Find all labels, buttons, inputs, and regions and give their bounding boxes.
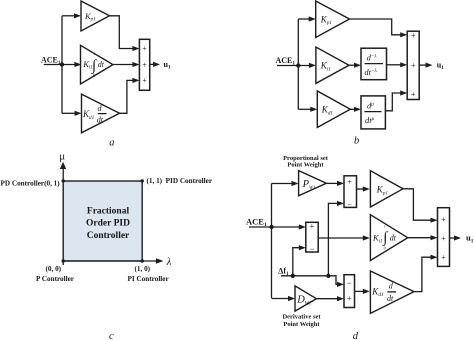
node (1,1) corner dot (fig c) — [141, 179, 144, 182]
svg-text:P Controller: P Controller — [36, 275, 75, 283]
node u1 output label (fig d) — [466, 233, 474, 245]
wire Kd1 to final summer (fig d) — [414, 255, 438, 292]
node ACE1 input label (fig a) — [41, 55, 61, 66]
svg-text:b: b — [354, 135, 359, 146]
wire branch vertical (fig d) — [271, 184, 273, 299]
wire Kp1 to final summer (fig d) — [403, 189, 438, 223]
svg-text:0: 0 — [93, 73, 95, 78]
subfigure label a — [109, 138, 114, 149]
junction node on ACE1 wire (fig a) — [60, 62, 64, 66]
wire to Kp1 (fig b) — [298, 16, 315, 21]
axis label lambda (fig c) — [166, 257, 172, 268]
wire Delta f to summer2 minus (fig d) — [293, 245, 306, 276]
svg-text:(1, 1) PID Controller: (1, 1) PID Controller — [147, 177, 213, 185]
node ACE1 input label (fig b) — [276, 56, 296, 67]
svg-text:dt: dt — [387, 294, 394, 303]
wire branch vertical (fig a) — [61, 16, 63, 114]
summer2 (fig d) — [306, 222, 318, 254]
svg-text:(0, 0): (0, 0) — [46, 265, 62, 273]
svg-text:Controller: Controller — [87, 231, 130, 241]
svg-text:u1: u1 — [466, 233, 474, 245]
wire Kp1 to summer (fig b) — [350, 19, 408, 37]
svg-text:+: + — [411, 61, 416, 70]
wire summer2 output to Ki1 (fig d) — [318, 235, 370, 240]
wire Kd1 to summer (fig a) — [120, 78, 140, 114]
label (1,1) PID Controller (fig c) — [147, 177, 213, 185]
gain Kd1 (fig b) — [317, 91, 350, 128]
svg-text:Fractional: Fractional — [87, 206, 130, 216]
summer1 (fig d) — [344, 176, 357, 209]
node (0,0) corner dot (fig c) — [62, 259, 65, 262]
axis label mu (fig c) — [59, 151, 65, 163]
wire Delta f1 (fig d) — [281, 275, 328, 277]
node Delta f1 label (fig d) — [278, 266, 289, 277]
label PD Controller (0,1) (fig c) — [1, 180, 61, 188]
svg-text:dt: dt — [98, 60, 105, 69]
subfigure label d — [353, 331, 359, 340]
wire branch vertical (fig b) — [297, 19, 299, 109]
junction node Delta f second (fig d) — [326, 274, 330, 278]
gain Kp1 (fig b) — [316, 1, 350, 38]
svg-text:+: + — [142, 44, 147, 53]
svg-text:u1: u1 — [164, 60, 171, 71]
subfigure label c — [109, 331, 114, 340]
junction node on ACE1 wire (fig b) — [296, 63, 300, 67]
wire to Kp1 (fig a) — [62, 13, 81, 18]
label Proportional set Point Weight (fig d) — [283, 155, 329, 169]
svg-text:c: c — [109, 331, 114, 340]
svg-text:+: + — [411, 31, 416, 40]
wire Ki1 to fractional integrator (fig b) — [349, 63, 361, 68]
svg-text:a: a — [109, 138, 114, 149]
wire Ki1 to summer (fig a) — [113, 62, 139, 67]
wire ACE1 to summer2 (fig d) — [249, 224, 306, 229]
svg-text:+: + — [441, 253, 446, 262]
svg-text:dt: dt — [390, 234, 397, 243]
wire to DW1 (fig d) — [272, 296, 296, 301]
svg-text:−: − — [347, 278, 352, 288]
proportional set point weight gain PW1 (fig d) — [299, 171, 327, 196]
node u1 output label (fig a) — [164, 60, 171, 71]
summer3 (fig d) — [344, 275, 355, 308]
svg-text:PD Controller(0, 1): PD Controller(0, 1) — [1, 180, 61, 188]
svg-text:−: − — [347, 200, 352, 209]
wire to PW1 (fig d) — [272, 181, 299, 186]
wire PW1 to summer1 (fig d) — [326, 181, 344, 186]
wire differentiator block to summer (fig b) — [385, 90, 407, 110]
wire final summer output (fig d) — [450, 235, 462, 240]
FOPID region square (fig c) — [63, 181, 142, 261]
junction node Delta f first (fig d) — [291, 274, 295, 278]
label P Controller (fig c) — [36, 275, 75, 283]
x-axis with right arrow (fig c) — [63, 258, 163, 264]
svg-text:Derivative set: Derivative set — [282, 314, 321, 321]
svg-text:u1: u1 — [437, 61, 444, 72]
wire Delta f to summer3 minus (fig d) — [328, 276, 344, 287]
svg-text:Point Weight: Point Weight — [283, 321, 320, 328]
wire summer output (fig b) — [419, 63, 432, 68]
wire summer1 output to Kp1 (fig d) — [357, 186, 370, 191]
svg-text:+: + — [441, 215, 446, 224]
wire Ki1 to final summer (fig d) — [408, 235, 438, 240]
summing junction (fig b) — [407, 31, 419, 99]
gain Kp1 (fig a) — [81, 1, 110, 31]
y-axis with up arrow (fig c) — [60, 162, 66, 265]
gain Kp1 (fig d) — [370, 171, 403, 207]
wire ACE1 input to Ki1 (fig a) — [44, 62, 82, 67]
svg-text:+: + — [309, 222, 314, 232]
svg-text:+: + — [441, 234, 446, 243]
wire Kp1 to summer (fig a) — [110, 16, 140, 51]
final summing junction (fig d) — [438, 208, 450, 267]
label Derivative set Point Weight (fig d) — [282, 314, 321, 329]
derivative set point weight gain DW1 (fig d) — [295, 286, 316, 311]
fractional integrator block 1/s^lambda (fig b) — [361, 48, 387, 79]
wire integrator block to summer (fig b) — [387, 62, 408, 67]
wire Kd1 to fractional differentiator (fig b) — [350, 107, 361, 112]
node (1,0) corner dot (fig c) — [141, 259, 144, 262]
wire to Kd1 (fig b) — [298, 107, 317, 112]
svg-text:+: + — [347, 294, 352, 304]
node ACE1 input label (fig d) — [246, 217, 267, 229]
derivative gain Kd1 (fig d) — [370, 271, 414, 313]
junction node ACE1 (fig d) — [269, 225, 273, 229]
node u1 output label (fig b) — [437, 61, 444, 72]
gain Ki1 (fig b) — [316, 47, 349, 83]
fractional differentiator block d^mu (fig b) — [361, 96, 385, 129]
svg-text:λ: λ — [166, 257, 172, 268]
svg-text:Point Weight: Point Weight — [287, 162, 324, 169]
svg-text:PI Controller: PI Controller — [128, 275, 170, 283]
label (0,0) (fig c) — [46, 265, 62, 273]
wire summer output (fig a) — [150, 62, 160, 67]
svg-text:+: + — [142, 76, 147, 85]
integrator gain Ki1 (fig d) — [370, 215, 407, 261]
svg-text:μ: μ — [59, 151, 65, 163]
label PI Controller (fig c) — [128, 275, 170, 283]
subfigure label b — [354, 135, 359, 146]
svg-text:+: + — [411, 90, 416, 99]
FOPID square caption text (fig c) — [86, 206, 130, 241]
svg-text:+: + — [142, 60, 147, 69]
wire Delta f to summer1 minus (fig d) — [328, 201, 344, 276]
svg-text:+: + — [347, 177, 352, 186]
svg-text:Order PID: Order PID — [86, 219, 130, 229]
svg-text:0: 0 — [384, 245, 386, 250]
derivative gain Kd1 (fig a) — [82, 94, 120, 133]
summing junction (fig a) — [139, 39, 149, 90]
integrator gain Ki1 (fig a) — [81, 45, 114, 84]
svg-text:−: − — [309, 244, 314, 254]
label (1,0) (fig c) — [135, 265, 151, 273]
wire DW1 to summer3 (fig d) — [316, 296, 344, 301]
wire ACE1 input to Ki1 (fig b) — [277, 63, 316, 68]
svg-text:dt: dt — [97, 115, 104, 124]
svg-text:(1, 0): (1, 0) — [135, 265, 151, 273]
wire to Kd1 (fig a) — [62, 111, 82, 116]
node (0,1) corner dot (fig c) — [62, 179, 65, 182]
svg-text:d: d — [353, 331, 359, 340]
wire summer3 output to Kd1 (fig d) — [355, 289, 370, 294]
